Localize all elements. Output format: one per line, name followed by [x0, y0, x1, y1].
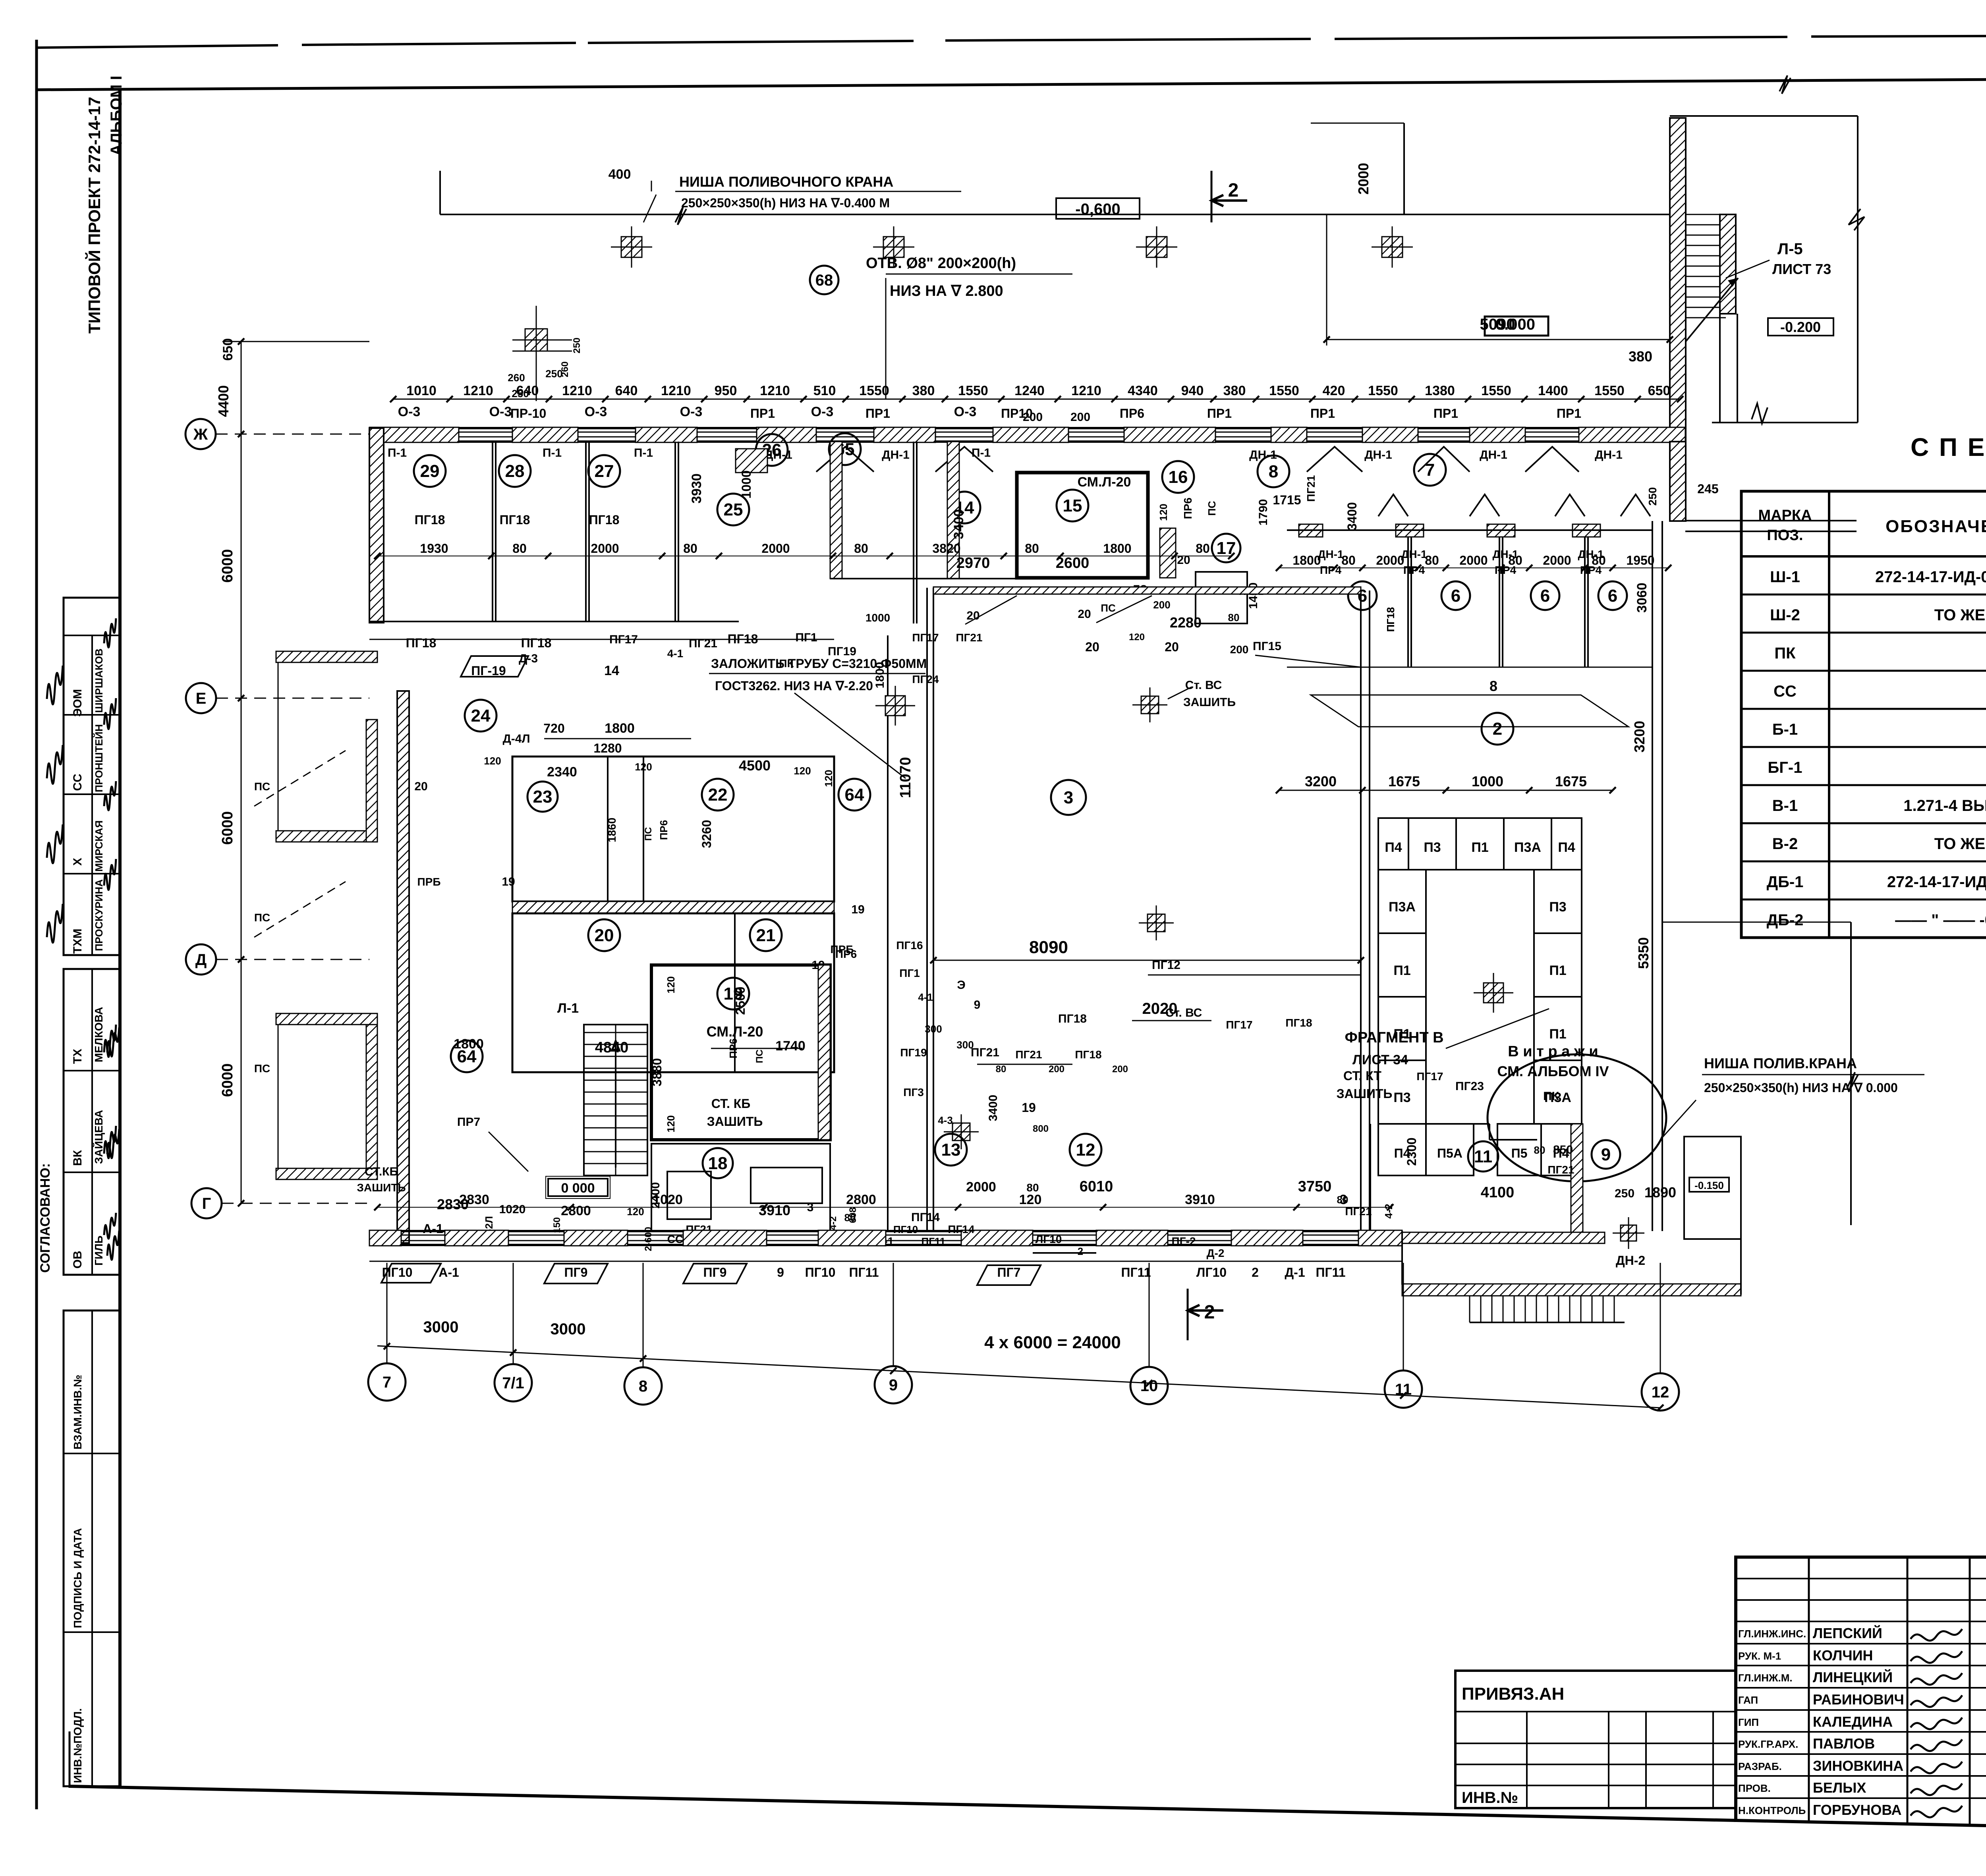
svg-text:13: 13: [941, 1140, 961, 1160]
stamp table A: [64, 598, 120, 955]
svg-text:П5А: П5А: [1437, 1146, 1462, 1160]
door leaf symbols: [816, 447, 874, 472]
room 14 partitions: [913, 442, 914, 623]
svg-text:80: 80: [844, 1212, 856, 1224]
svg-text:2: 2: [1493, 719, 1502, 739]
svg-text:64: 64: [457, 1047, 477, 1066]
svg-text:О-3: О-3: [489, 404, 512, 419]
svg-text:3: 3: [1064, 788, 1073, 807]
svg-text:ПГ18: ПГ18: [1058, 1012, 1087, 1025]
svg-text:20: 20: [1165, 640, 1179, 654]
svg-text:8: 8: [1489, 678, 1497, 694]
svg-text:3060: 3060: [1634, 583, 1650, 613]
svg-text:ПГ18: ПГ18: [1385, 607, 1397, 632]
svg-text:1930: 1930: [420, 541, 448, 556]
svg-text:19: 19: [724, 984, 743, 1004]
dim 5090/380: [1327, 339, 1670, 340]
vent hole note 68: [810, 266, 838, 294]
svg-text:120: 120: [794, 765, 811, 777]
svg-text:РАЗРАБ.: РАЗРАБ.: [1738, 1760, 1782, 1772]
svg-text:Х: Х: [71, 858, 84, 866]
svg-text:Ж: Ж: [193, 426, 208, 443]
svg-text:ПГ11: ПГ11: [1121, 1265, 1151, 1280]
svg-text:О-3: О-3: [585, 404, 607, 419]
svg-text:ПГ18: ПГ18: [406, 636, 437, 650]
svg-text:6010: 6010: [1080, 1178, 1113, 1195]
svg-text:23: 23: [533, 787, 553, 807]
svg-text:СМ. АЛЬБОМ IV: СМ. АЛЬБОМ IV: [1497, 1063, 1609, 1079]
svg-text:1020: 1020: [653, 1192, 683, 1207]
svg-text:250×250×350(h) НИЗ НА ∇-0.400: 250×250×350(h) НИЗ НА ∇-0.400 М: [681, 196, 890, 210]
svg-text:27: 27: [595, 461, 614, 481]
svg-text:ФРАГМЕНТ В: ФРАГМЕНТ В: [1345, 1029, 1443, 1046]
privyaz table: [1455, 1671, 1736, 1808]
svg-text:СС: СС: [71, 774, 84, 791]
svg-text:П-1: П-1: [388, 446, 407, 459]
svg-text:ПР7: ПР7: [457, 1116, 480, 1129]
svg-text:200: 200: [1230, 643, 1249, 656]
svg-text:А-1: А-1: [439, 1265, 459, 1280]
svg-text:272-14-17-ИД-02.00: 272-14-17-ИД-02.00: [1887, 873, 1986, 891]
svg-text:ИНВ.№ПОДЛ.: ИНВ.№ПОДЛ.: [71, 1708, 84, 1783]
left axis circles: [185, 419, 216, 449]
svg-text:800: 800: [1033, 1123, 1049, 1134]
svg-text:ПГ7: ПГ7: [997, 1265, 1021, 1280]
svg-text:1010: 1010: [406, 383, 437, 398]
svg-text:80: 80: [1196, 541, 1210, 556]
svg-text:14: 14: [604, 663, 619, 678]
svg-text:640: 640: [615, 383, 638, 398]
svg-text:ЛГ10: ЛГ10: [1196, 1265, 1227, 1280]
svg-text:1210: 1210: [463, 383, 493, 398]
svg-text:3000: 3000: [423, 1318, 459, 1336]
svg-text:380: 380: [912, 383, 935, 398]
svg-text:ВЗАМ.ИНВ.№: ВЗАМ.ИНВ.№: [71, 1375, 84, 1449]
svg-text:ПГ1: ПГ1: [795, 631, 817, 644]
svg-text:ПР1: ПР1: [865, 406, 890, 421]
svg-text:3260: 3260: [699, 820, 714, 848]
svg-text:ЛГ10: ЛГ10: [1036, 1233, 1062, 1245]
svg-text:6000: 6000: [219, 549, 236, 583]
svg-text:2800: 2800: [846, 1192, 876, 1207]
svg-text:ПГ15: ПГ15: [1253, 640, 1281, 653]
canopy edge: [440, 214, 1670, 215]
svg-text:80: 80: [1026, 1181, 1039, 1194]
svg-text:ПРОСКУРИНА: ПРОСКУРИНА: [93, 879, 105, 951]
stamp table C: [64, 1310, 120, 1786]
svg-text:ПОЗ.: ПОЗ.: [1767, 527, 1803, 544]
svg-text:-0.200: -0.200: [1780, 319, 1821, 335]
svg-text:3750: 3750: [1298, 1178, 1332, 1195]
svg-text:7/1: 7/1: [502, 1374, 524, 1392]
svg-text:ПС: ПС: [643, 827, 654, 841]
left cluster: [276, 651, 377, 662]
svg-text:4-1: 4-1: [667, 647, 683, 660]
svg-text:5090: 5090: [1480, 316, 1515, 333]
svg-text:20: 20: [1078, 608, 1091, 621]
svg-text:ЗАШИТЬ: ЗАШИТЬ: [707, 1114, 763, 1129]
svg-text:Э: Э: [957, 979, 965, 992]
svg-text:2830: 2830: [459, 1192, 489, 1207]
svg-text:ПГ18: ПГ18: [589, 513, 620, 527]
svg-text:3000: 3000: [551, 1320, 586, 1338]
svg-text:120: 120: [1129, 632, 1145, 643]
right walls: [1670, 442, 1686, 521]
svg-text:1740: 1740: [775, 1038, 806, 1054]
svg-text:ПР6: ПР6: [1182, 498, 1194, 519]
svg-text:4-1: 4-1: [918, 991, 933, 1003]
svg-text:64: 64: [845, 785, 864, 805]
svg-text:П4: П4: [1385, 840, 1402, 855]
svg-text:СТ. КБ: СТ. КБ: [711, 1096, 751, 1111]
svg-text:ПР4: ПР4: [1580, 564, 1602, 576]
svg-text:1550: 1550: [1594, 383, 1625, 398]
bottom wall: [369, 1230, 1402, 1232]
svg-text:ГЛ.ИНЖ.М.: ГЛ.ИНЖ.М.: [1738, 1672, 1793, 1684]
stair block top right: [1670, 118, 1686, 442]
svg-text:О-3: О-3: [954, 404, 977, 419]
svg-text:1210: 1210: [1071, 383, 1101, 398]
svg-text:4100: 4100: [1481, 1184, 1515, 1201]
svg-text:ЗИНОВКИНА: ЗИНОВКИНА: [1813, 1758, 1903, 1774]
svg-text:2000: 2000: [1376, 553, 1404, 567]
svg-text:ДН-1: ДН-1: [1578, 548, 1603, 560]
section arrow 2 top: [1211, 171, 1213, 222]
svg-text:80: 80: [683, 541, 697, 556]
svg-text:ЛИСТ 34: ЛИСТ 34: [1352, 1052, 1408, 1067]
svg-text:1550: 1550: [958, 383, 988, 398]
svg-text:ТО ЖЕ: ТО ЖЕ: [1934, 835, 1986, 853]
svg-text:Д-1: Д-1: [1285, 1265, 1305, 1280]
svg-text:950: 950: [715, 383, 737, 398]
svg-text:ПГ18: ПГ18: [521, 636, 552, 650]
svg-text:8: 8: [639, 1378, 647, 1395]
svg-text:0 000: 0 000: [561, 1181, 595, 1196]
bottom inner dim line: [377, 1207, 1390, 1208]
svg-text:3: 3: [1340, 1192, 1347, 1207]
svg-text:П3: П3: [1549, 899, 1566, 915]
svg-text:ПГ17: ПГ17: [1416, 1070, 1443, 1083]
svg-text:245: 245: [1697, 482, 1718, 496]
svg-text:ДН-1: ДН-1: [1595, 448, 1623, 461]
svg-text:В-1: В-1: [1772, 797, 1798, 814]
svg-text:120: 120: [484, 755, 501, 767]
svg-text:720: 720: [543, 721, 564, 735]
svg-text:ПРИВЯЗ.АН: ПРИВЯЗ.АН: [1462, 1684, 1564, 1704]
svg-text:Д-3: Д-3: [519, 652, 538, 665]
svg-text:ДН-1: ДН-1: [1492, 548, 1518, 560]
svg-text:ПГ18: ПГ18: [1075, 1048, 1101, 1061]
svg-text:11070: 11070: [897, 757, 914, 798]
svg-text:Д-2: Д-2: [1207, 1247, 1225, 1259]
svg-text:1550: 1550: [1368, 383, 1398, 398]
stairs: [584, 1025, 647, 1175]
svg-text:ПГ-19: ПГ-19: [471, 664, 506, 678]
svg-text:80: 80: [1228, 612, 1240, 623]
svg-text:ПР1: ПР1: [1433, 406, 1458, 421]
svg-text:1675: 1675: [1388, 773, 1420, 789]
svg-text:Д: Д: [195, 951, 207, 969]
svg-text:3400: 3400: [951, 509, 966, 539]
svg-text:200: 200: [1112, 1064, 1128, 1075]
svg-text:1790: 1790: [1257, 499, 1270, 526]
svg-text:ПГ1: ПГ1: [899, 967, 920, 979]
svg-text:3200: 3200: [1305, 773, 1337, 789]
top dimension chain: [393, 399, 1680, 400]
level box -0.600: [1056, 198, 1140, 219]
svg-text:ПР-10: ПР-10: [510, 406, 547, 421]
svg-text:3930: 3930: [689, 473, 704, 504]
room 15/16 walls: [1017, 473, 1148, 578]
top row partitions: [492, 442, 493, 621]
svg-text:300: 300: [925, 1023, 942, 1035]
svg-text:9: 9: [974, 998, 981, 1011]
svg-text:КАЛЕДИНА: КАЛЕДИНА: [1813, 1714, 1893, 1730]
svg-text:ТИПОВОЙ ПРОЕКТ 272-14-17: ТИПОВОЙ ПРОЕКТ 272-14-17: [85, 97, 104, 334]
svg-text:ЛЕПСКИЙ: ЛЕПСКИЙ: [1813, 1625, 1882, 1641]
svg-text:5350: 5350: [1635, 937, 1652, 969]
svg-text:КОЛЧИН: КОЛЧИН: [1813, 1647, 1873, 1664]
svg-text:Г: Г: [202, 1195, 211, 1212]
svg-text:1210: 1210: [562, 383, 592, 398]
svg-text:9: 9: [889, 1376, 898, 1394]
svg-text:П5: П5: [1511, 1146, 1528, 1160]
svg-text:3400: 3400: [987, 1095, 1000, 1121]
svg-text:В-2: В-2: [1772, 835, 1798, 853]
svg-text:ГОРБУНОВА: ГОРБУНОВА: [1813, 1802, 1902, 1818]
svg-text:НИША ПОЛИВОЧНОГО КРАНА: НИША ПОЛИВОЧНОГО КРАНА: [679, 174, 893, 190]
svg-text:2: 2: [1204, 1302, 1215, 1323]
svg-text:12: 12: [1076, 1140, 1095, 1160]
svg-text:6: 6: [1451, 586, 1461, 606]
svg-text:ПГ18: ПГ18: [1285, 1017, 1312, 1029]
bottom axes: [377, 1346, 1660, 1408]
svg-text:1240: 1240: [1014, 383, 1045, 398]
svg-text:БЕЛЫХ: БЕЛЫХ: [1813, 1779, 1866, 1796]
svg-text:2280: 2280: [1170, 614, 1202, 631]
svg-text:ПГ3: ПГ3: [903, 1086, 924, 1098]
svg-text:ТО ЖЕ: ТО ЖЕ: [1934, 606, 1986, 624]
svg-text:ПРОНШТЕЙН: ПРОНШТЕЙН: [93, 724, 105, 792]
stall door symbols: [1378, 494, 1408, 516]
svg-text:Б-1: Б-1: [1772, 721, 1798, 738]
svg-text:10: 10: [1140, 1377, 1158, 1395]
svg-text:МЕЛКОВА: МЕЛКОВА: [93, 1007, 105, 1062]
svg-text:3880: 3880: [650, 1058, 664, 1086]
svg-text:4500: 4500: [739, 757, 771, 774]
svg-text:250: 250: [1646, 487, 1659, 506]
svg-text:1800: 1800: [1103, 541, 1131, 556]
svg-text:П-1: П-1: [972, 446, 991, 459]
svg-text:ПР1: ПР1: [750, 406, 775, 421]
svg-text:1550: 1550: [1269, 383, 1299, 398]
title block: [1736, 1557, 1986, 1837]
exterior wall axis Ж: [369, 427, 1685, 429]
svg-text:Л-1: Л-1: [557, 1001, 579, 1016]
svg-text:ПР1: ПР1: [1557, 406, 1581, 421]
svg-text:ИНВ.№: ИНВ.№: [1462, 1789, 1518, 1807]
svg-text:380: 380: [1629, 348, 1652, 365]
svg-text:ДН-2: ДН-2: [1616, 1253, 1645, 1268]
svg-text:А-1: А-1: [423, 1222, 443, 1236]
svg-text:120: 120: [823, 770, 835, 787]
svg-text:Л-5: Л-5: [1777, 240, 1803, 258]
svg-text:1890: 1890: [1644, 1184, 1676, 1200]
sheet inner frame: [118, 89, 122, 1787]
svg-text:28: 28: [505, 461, 525, 481]
svg-text:ГИП: ГИП: [1738, 1716, 1759, 1728]
svg-text:МИРСКАЯ: МИРСКАЯ: [93, 820, 105, 872]
svg-text:ПГ14: ПГ14: [911, 1211, 940, 1224]
svg-text:-0.150: -0.150: [1694, 1179, 1724, 1191]
svg-text:ПРБ: ПРБ: [831, 943, 854, 955]
svg-text:9: 9: [777, 1265, 784, 1280]
svg-text:ДН-1: ДН-1: [1318, 548, 1343, 560]
svg-text:ПГ11: ПГ11: [1316, 1265, 1346, 1280]
svg-text:П1: П1: [1549, 1027, 1566, 1042]
svg-text:СС: СС: [1773, 683, 1797, 700]
svg-text:7: 7: [1425, 460, 1435, 480]
svg-text:РУК.ГР.АРХ.: РУК.ГР.АРХ.: [1738, 1738, 1798, 1750]
svg-text:1020: 1020: [499, 1203, 526, 1216]
svg-text:21: 21: [756, 926, 776, 945]
svg-text:ПС: ПС: [754, 1050, 765, 1063]
svg-text:ЛИСТ 73: ЛИСТ 73: [1772, 261, 1831, 277]
svg-text:940: 940: [1181, 383, 1204, 398]
svg-text:П4: П4: [1558, 840, 1575, 855]
svg-text:250: 250: [1615, 1187, 1634, 1200]
svg-text:15: 15: [1063, 496, 1082, 515]
svg-text:ЭОМ: ЭОМ: [71, 689, 84, 717]
room 11: [1398, 1123, 1489, 1125]
svg-text:ПР4: ПР4: [1403, 564, 1425, 576]
svg-text:ДБ-1: ДБ-1: [1767, 873, 1804, 891]
svg-text:2000: 2000: [966, 1179, 996, 1195]
svg-text:П1: П1: [1393, 963, 1410, 978]
svg-text:О-3: О-3: [680, 404, 703, 419]
svg-text:4 x 6000 = 24000: 4 x 6000 = 24000: [984, 1333, 1121, 1352]
svg-text:ДН-1: ДН-1: [1480, 448, 1507, 461]
svg-text:12: 12: [1652, 1384, 1669, 1401]
svg-text:2: 2: [1252, 1265, 1259, 1280]
left wall: [369, 428, 384, 623]
svg-text:СОГЛАСОВАНО:: СОГЛАСОВАНО:: [38, 1163, 53, 1273]
svg-text:8090: 8090: [1029, 938, 1068, 957]
svg-text:П3: П3: [1393, 1090, 1410, 1105]
vestibule walls: [830, 442, 842, 579]
break marks top: [675, 207, 686, 225]
svg-text:22: 22: [708, 785, 728, 805]
svg-text:ПГ9: ПГ9: [564, 1265, 588, 1280]
svg-text:ДБ-2: ДБ-2: [1767, 911, 1804, 929]
svg-text:200: 200: [1049, 1064, 1064, 1075]
svg-text:120: 120: [1019, 1192, 1042, 1207]
svg-text:3910: 3910: [759, 1202, 790, 1218]
svg-text:1800: 1800: [1292, 553, 1321, 567]
svg-text:24: 24: [471, 706, 491, 726]
entrance stairs: [1469, 1296, 1470, 1322]
svg-text:СМ.Л-20: СМ.Л-20: [1078, 475, 1131, 490]
svg-text:-0,600: -0,600: [1075, 201, 1120, 218]
svg-text:850: 850: [1553, 1143, 1573, 1156]
svg-text:ПГ12: ПГ12: [1152, 959, 1180, 972]
svg-text:1210: 1210: [760, 383, 790, 398]
svg-text:ОТВ. Ø8" 200×200(h): ОТВ. Ø8" 200×200(h): [866, 255, 1016, 272]
svg-text:ПГ24: ПГ24: [912, 673, 939, 685]
svg-text:2000: 2000: [761, 541, 790, 556]
svg-text:ВК: ВК: [71, 1150, 84, 1166]
svg-text:80: 80: [512, 541, 527, 556]
svg-text:6000: 6000: [219, 1063, 236, 1097]
svg-text:П-1: П-1: [543, 446, 562, 459]
svg-text:510: 510: [813, 383, 836, 398]
hall walls: [887, 635, 889, 1231]
svg-text:П1: П1: [1471, 840, 1488, 855]
left dim chain: [241, 342, 242, 1203]
svg-text:П-1: П-1: [634, 446, 653, 459]
svg-text:6: 6: [1540, 586, 1550, 606]
svg-text:ПГ19: ПГ19: [900, 1046, 927, 1059]
svg-text:ПС: ПС: [254, 1062, 270, 1075]
svg-text:2970: 2970: [956, 555, 990, 571]
svg-text:ПР4: ПР4: [1495, 564, 1517, 576]
svg-text:ШИРШАКОВ: ШИРШАКОВ: [93, 648, 105, 713]
svg-text:68: 68: [815, 272, 833, 289]
svg-text:ПГ23: ПГ23: [1455, 1080, 1484, 1093]
svg-text:1550: 1550: [1481, 383, 1511, 398]
svg-text:6000: 6000: [219, 811, 236, 845]
svg-text:О-3: О-3: [811, 404, 834, 419]
svg-text:ПГ17: ПГ17: [912, 631, 939, 644]
svg-text:ПР10: ПР10: [1001, 406, 1033, 421]
svg-text:ПРБ: ПРБ: [417, 876, 441, 888]
svg-text:4840: 4840: [595, 1039, 629, 1056]
svg-text:2000: 2000: [1355, 163, 1372, 195]
svg-text:16: 16: [1169, 467, 1188, 487]
svg-text:4340: 4340: [1128, 383, 1158, 398]
svg-text:С П Е Ц И Ф И К А Ц И Я: С П Е Ц И Ф И К А Ц И Я: [1911, 433, 1986, 461]
svg-text:19: 19: [851, 903, 864, 916]
svg-text:260: 260: [508, 372, 525, 384]
svg-text:ТХМ: ТХМ: [71, 928, 84, 953]
svg-text:8: 8: [1269, 462, 1278, 481]
svg-text:П3А: П3А: [1514, 840, 1541, 855]
stamp extra handwriting: [104, 618, 116, 647]
svg-text:В и т р а ж и: В и т р а ж и: [1508, 1043, 1598, 1060]
svg-text:400: 400: [609, 167, 631, 182]
svg-text:ПГ11: ПГ11: [849, 1265, 879, 1280]
svg-text:ГОСТ3262. НИЗ НА ∇-2.20: ГОСТ3262. НИЗ НА ∇-2.20: [715, 679, 873, 693]
svg-text:1380: 1380: [1425, 383, 1455, 398]
svg-text:СТ. КТ: СТ. КТ: [1343, 1069, 1381, 1083]
svg-text:4400: 4400: [215, 385, 232, 417]
svg-text:ПГ21: ПГ21: [956, 631, 982, 644]
svg-text:ЗАШИТЬ: ЗАШИТЬ: [1337, 1087, 1393, 1101]
svg-text:Ст. ВС: Ст. ВС: [1185, 679, 1222, 692]
parallelogram label frames: [461, 656, 528, 677]
svg-text:ПС: ПС: [254, 780, 270, 793]
svg-text:ДН-1: ДН-1: [1401, 548, 1427, 560]
svg-text:ПР1: ПР1: [1310, 406, 1335, 421]
svg-text:ПР1: ПР1: [1207, 406, 1232, 421]
svg-text:120: 120: [665, 1115, 677, 1132]
svg-text:ПК: ПК: [1774, 645, 1796, 662]
svg-text:20: 20: [1177, 554, 1190, 567]
svg-text:250: 250: [572, 338, 582, 353]
svg-text:ЗАЙЦЕВА: ЗАЙЦЕВА: [92, 1110, 105, 1164]
svg-text:1715: 1715: [1273, 493, 1301, 507]
svg-text:СТ.КБ: СТ.КБ: [365, 1165, 398, 1178]
